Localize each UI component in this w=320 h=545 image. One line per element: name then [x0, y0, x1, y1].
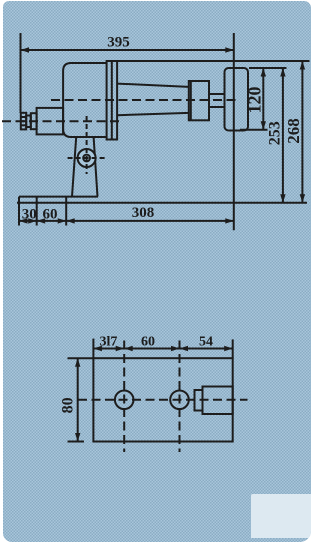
- svg-text:80: 80: [59, 397, 76, 413]
- svg-text:395: 395: [107, 35, 130, 51]
- svg-text:60: 60: [43, 207, 58, 223]
- svg-text:60: 60: [141, 335, 155, 350]
- svg-text:253: 253: [266, 121, 283, 145]
- svg-text:54: 54: [199, 335, 213, 350]
- svg-text:3l7: 3l7: [99, 335, 117, 350]
- svg-text:120: 120: [244, 87, 264, 114]
- svg-text:308: 308: [132, 205, 155, 221]
- svg-text:30: 30: [22, 207, 37, 223]
- svg-text:268: 268: [284, 118, 303, 144]
